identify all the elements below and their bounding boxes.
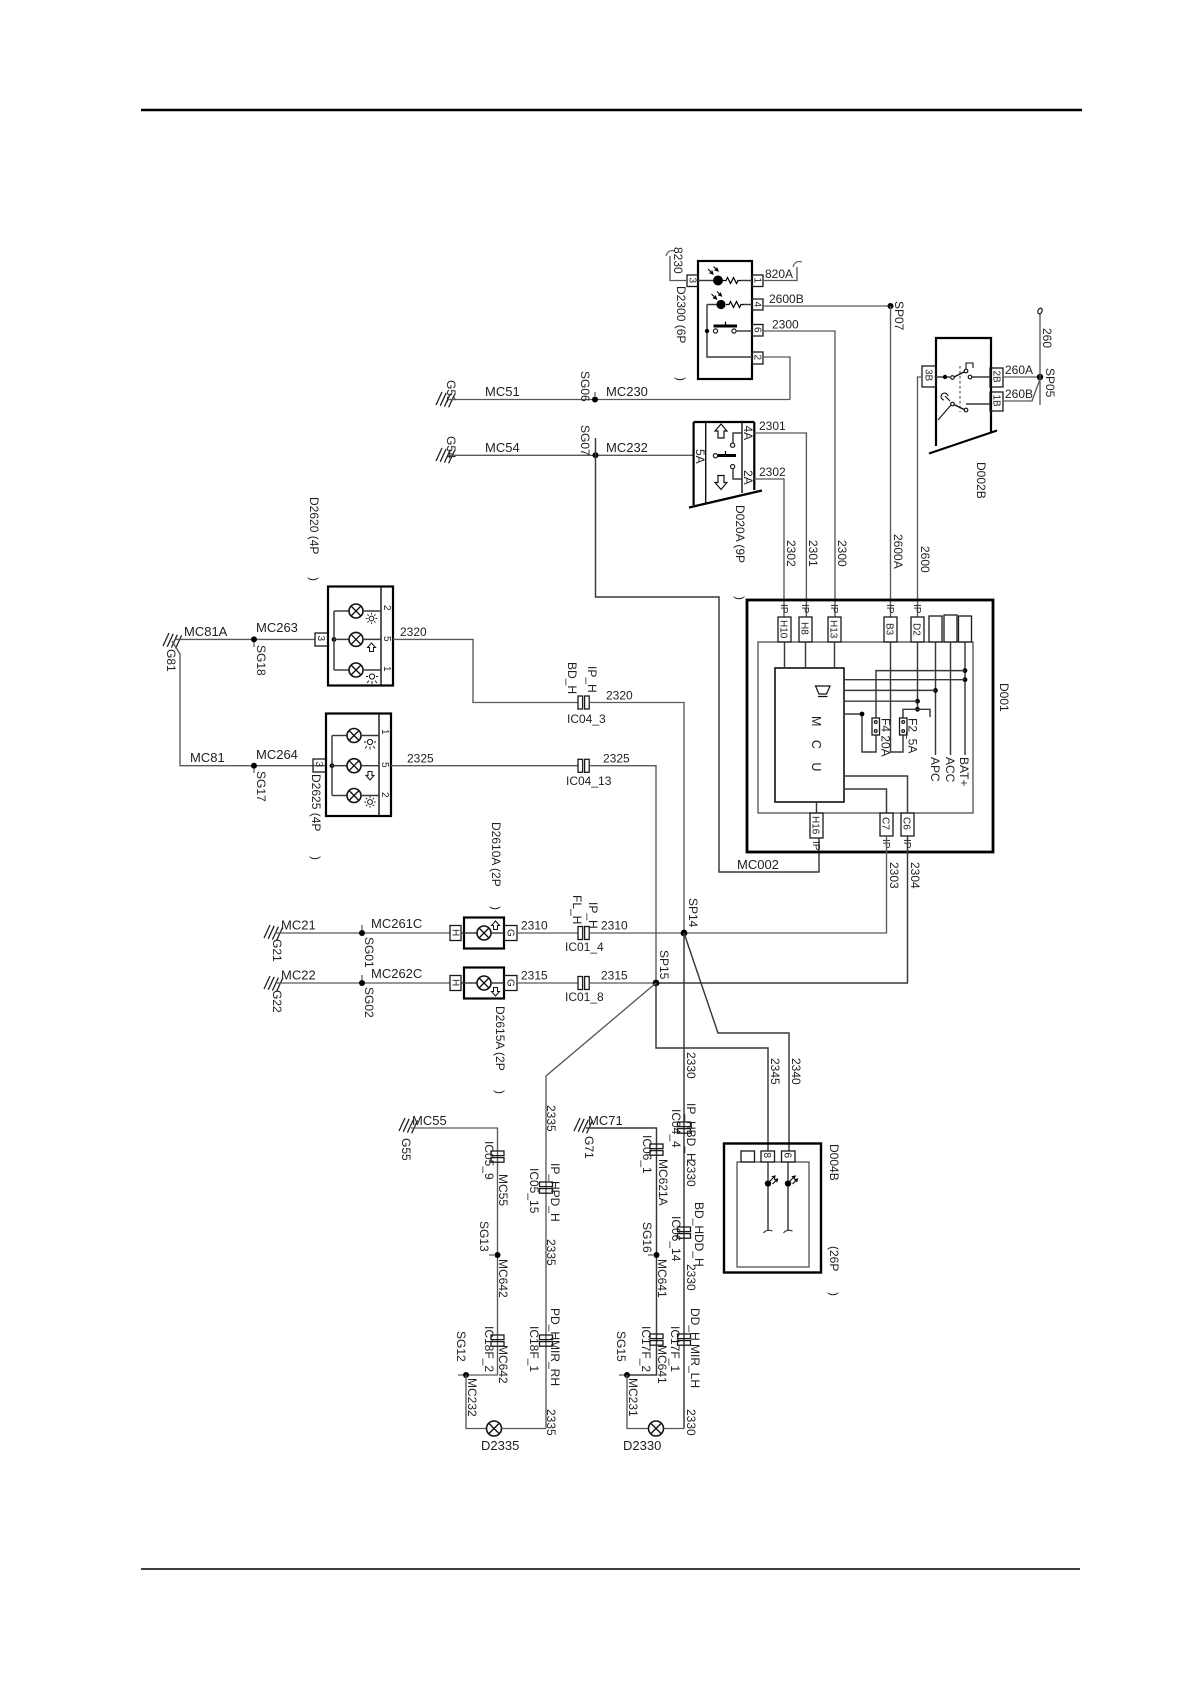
- svg-text:D2610A (2P: D2610A (2P: [489, 822, 503, 887]
- svg-text:MC55: MC55: [496, 1174, 510, 1206]
- svg-text:2325: 2325: [603, 752, 630, 766]
- wire MC81 row label: [190, 747, 298, 765]
- resistor row1 D2300: [723, 278, 752, 284]
- fuse F2: [900, 718, 920, 753]
- label D020A (9P: [733, 505, 747, 563]
- wire MC71: [586, 1113, 657, 1375]
- ground G22: [264, 976, 284, 1013]
- svg-text:D004B: D004B: [827, 1144, 841, 1181]
- svg-text:IP_HBD_H: IP_HBD_H: [684, 1103, 698, 1162]
- svg-text:D2300 (6P: D2300 (6P: [674, 286, 688, 343]
- speaker icon: [816, 686, 831, 697]
- wire H13 to MCU: [834, 642, 836, 668]
- wire 2330 vertical: [684, 933, 698, 1429]
- svg-text:2325: 2325: [407, 752, 434, 766]
- connector IC18F_1: [527, 1308, 562, 1386]
- svg-text:MC81A: MC81A: [184, 624, 228, 639]
- svg-text:SG06: SG06: [578, 371, 592, 402]
- svg-text:SG07: SG07: [578, 425, 592, 456]
- svg-text:G21: G21: [270, 939, 284, 962]
- svg-text:MC81: MC81: [190, 750, 225, 765]
- svg-text:2302: 2302: [784, 540, 798, 567]
- svg-text:MC232: MC232: [606, 440, 648, 455]
- pin 5 label D2620: [381, 636, 392, 642]
- lamp symbol row2 D2300: [707, 292, 726, 310]
- svg-text:H8: H8: [799, 622, 810, 635]
- wire 2310: [517, 919, 578, 934]
- svg-text:MC55: MC55: [412, 1113, 447, 1128]
- svg-text:FL_H: FL_H: [570, 895, 584, 924]
- svg-text:MC641: MC641: [655, 1345, 669, 1384]
- wire 2340 diagonal from SP14: [684, 933, 803, 1151]
- turn lamp unit D2610A: [450, 918, 518, 949]
- icon down arrow D2625: [366, 772, 374, 781]
- svg-text:SG17: SG17: [254, 771, 268, 802]
- ground G71: [574, 1118, 596, 1159]
- svg-text:2340: 2340: [789, 1058, 803, 1085]
- svg-text:260: 260: [1040, 328, 1054, 348]
- svg-text:D2330: D2330: [623, 1438, 661, 1453]
- wire MC51 / MC230 row: [448, 384, 790, 400]
- wire 2330 bottom link: [664, 1428, 685, 1430]
- node SG16: [640, 1222, 669, 1298]
- svg-text:C6: C6: [901, 817, 912, 830]
- svg-text:2330: 2330: [684, 1409, 698, 1436]
- connector IC01_8: [565, 977, 604, 1005]
- wire BAT+: [957, 642, 971, 786]
- svg-text:IC04_4: IC04_4: [669, 1109, 683, 1148]
- wire MCU to C6: [844, 776, 908, 813]
- mirror select switch D002B: [929, 338, 997, 454]
- svg-text:MC54: MC54: [485, 440, 520, 455]
- svg-text:5: 5: [379, 762, 390, 768]
- svg-text:MC261C: MC261C: [371, 916, 422, 931]
- label D004B: [827, 1144, 841, 1181]
- wire 2600 from 3B to D2: [918, 377, 933, 617]
- svg-text:H16: H16: [810, 816, 821, 835]
- control unit D001: [747, 600, 993, 852]
- svg-text:C7: C7: [880, 817, 891, 830]
- wire 2320 to SP14: [589, 689, 684, 934]
- lamp1 D2625: [347, 729, 379, 743]
- svg-text:2330: 2330: [684, 1264, 698, 1291]
- svg-text:2315: 2315: [521, 969, 548, 983]
- pin 2 label D2620: [381, 605, 392, 611]
- connector IC06_14: [669, 1202, 706, 1267]
- wire MC55: [411, 1113, 498, 1375]
- label (26P: [827, 1246, 841, 1271]
- wire MC002: [596, 438, 820, 872]
- lamp3 D2625: [347, 789, 379, 803]
- svg-text:H13: H13: [828, 620, 839, 639]
- lamp1 D2620: [349, 604, 381, 618]
- svg-text:IC05_15: IC05_15: [527, 1168, 541, 1214]
- inner board of D001: [758, 642, 973, 813]
- node SG06: [578, 371, 598, 403]
- svg-text:820A: 820A: [765, 267, 793, 281]
- label D001: [997, 683, 1011, 712]
- svg-text:MC71: MC71: [588, 1113, 623, 1128]
- svg-text:IC05_9: IC05_9: [482, 1141, 496, 1180]
- wire 2315 to SP15: [589, 969, 656, 984]
- pin B3: [884, 604, 898, 642]
- wire 2303: [684, 836, 901, 933]
- svg-text:MC621A: MC621A: [656, 1159, 670, 1206]
- svg-text:2: 2: [379, 792, 390, 798]
- svg-text:H10: H10: [778, 620, 789, 639]
- svg-text:IP_HPD_H: IP_HPD_H: [548, 1163, 562, 1222]
- svg-text:D2625 (4P: D2625 (4P: [309, 774, 323, 831]
- pin 6 of D004B: [782, 1151, 796, 1162]
- pin 4 of D2300: [752, 299, 764, 310]
- label M C U: [809, 716, 823, 776]
- icon tail lamp D2625: [364, 796, 375, 807]
- svg-text:D020A (9P: D020A (9P: [733, 505, 747, 563]
- wire 2600A vertical to B3: [891, 306, 906, 617]
- pin D2: [911, 604, 925, 642]
- fuse F2 top bracket: [903, 709, 930, 718]
- svg-text:PD_HMIR_RH: PD_HMIR_RH: [548, 1308, 562, 1386]
- label D2300 (6P: [674, 286, 688, 343]
- label D2615A (2P: [493, 1006, 507, 1094]
- pin 3 of D2625: [313, 759, 326, 772]
- wire MC231 to lamp: [627, 1375, 649, 1429]
- svg-text:IP: IP: [778, 604, 789, 614]
- turn lamp unit D2615A: [450, 968, 518, 999]
- svg-text:MC21: MC21: [281, 918, 316, 933]
- svg-text:D2: D2: [911, 623, 922, 636]
- wire 260 with open terminal: [1037, 307, 1054, 405]
- label D2620 (4P: [307, 497, 321, 581]
- wire MC230 riser from pin2: [763, 357, 790, 400]
- svg-text:2345: 2345: [768, 1058, 782, 1085]
- svg-text:SG12: SG12: [454, 1331, 468, 1362]
- svg-text:SP07: SP07: [892, 301, 906, 331]
- svg-text:MC264: MC264: [256, 747, 298, 762]
- wire MCU to C7: [844, 789, 887, 813]
- pin 3 of D2620: [315, 633, 328, 646]
- svg-text:260A: 260A: [1005, 363, 1033, 377]
- svg-text:D2620 (4P: D2620 (4P: [307, 497, 321, 554]
- svg-text:1: 1: [379, 729, 390, 735]
- svg-text:2: 2: [752, 355, 763, 361]
- svg-text:F4 20A: F4 20A: [879, 718, 893, 757]
- label 2330 bottom: [684, 1409, 698, 1436]
- svg-text:MC642: MC642: [496, 1345, 510, 1384]
- svg-text:2: 2: [381, 605, 392, 611]
- mcu row to D2: [844, 700, 918, 702]
- pin 1 label D2620: [381, 666, 392, 672]
- node SP05: [1037, 368, 1057, 398]
- svg-text:): ): [489, 906, 503, 910]
- svg-text:G22: G22: [270, 990, 284, 1013]
- svg-text:MC262C: MC262C: [371, 966, 422, 981]
- svg-text:2330: 2330: [684, 1160, 698, 1187]
- svg-text:6: 6: [782, 1153, 793, 1159]
- lamp2 D2625: [347, 759, 379, 773]
- svg-text:1B: 1B: [991, 395, 1002, 408]
- wire 2600B: [763, 292, 891, 306]
- svg-text:IP_H: IP_H: [585, 666, 599, 693]
- svg-text:2600B: 2600B: [769, 292, 804, 306]
- svg-text:MC263: MC263: [256, 620, 298, 635]
- node SG17: [251, 763, 268, 802]
- icon tail lamp: [366, 613, 377, 624]
- ground G55: [399, 1118, 418, 1161]
- wire MC81A row: [176, 620, 315, 639]
- label 2330 mid: [684, 1264, 698, 1291]
- svg-text:2335: 2335: [544, 1409, 558, 1436]
- wire G81 branch down: [172, 641, 326, 766]
- fuse F4 top link: [876, 671, 965, 718]
- LED right in D004B: [784, 1162, 798, 1233]
- connector IC05_15: [527, 1163, 562, 1222]
- connector IC06_1: [640, 1135, 670, 1206]
- wire MCU to H16: [816, 802, 818, 813]
- svg-text:2600: 2600: [918, 546, 932, 573]
- svg-text:5A: 5A: [693, 449, 707, 464]
- node SG07: [578, 425, 599, 458]
- svg-text:2320: 2320: [400, 625, 427, 639]
- svg-text:2320: 2320: [606, 689, 633, 703]
- svg-text:BD_H: BD_H: [565, 662, 579, 694]
- pin 6 of D2300: [752, 325, 764, 337]
- wire 2310 to SP14: [589, 919, 684, 934]
- wire ACC: [943, 642, 957, 783]
- switch unit D2300: [698, 261, 752, 379]
- svg-text:): ): [827, 1292, 841, 1296]
- svg-text:IC06_1: IC06_1: [640, 1135, 654, 1174]
- label ) of D2300: [674, 377, 688, 381]
- svg-text:IC17F_1: IC17F_1: [668, 1326, 682, 1372]
- svg-text:F2_5A: F2_5A: [906, 718, 920, 753]
- svg-text:2302: 2302: [759, 465, 786, 479]
- svg-text:IP: IP: [810, 841, 821, 851]
- svg-text:IC01_8: IC01_8: [565, 990, 604, 1004]
- wire 2345 from SP15: [656, 983, 782, 1151]
- svg-text:IP: IP: [884, 604, 895, 614]
- connector IC01_4: [565, 895, 604, 954]
- svg-text:2301: 2301: [806, 540, 820, 567]
- label D2610A (2P: [489, 822, 503, 910]
- wire MC232 to lamp: [466, 1375, 487, 1429]
- svg-text:260B: 260B: [1005, 387, 1033, 401]
- svg-text:SP15: SP15: [657, 950, 671, 980]
- svg-text:G: G: [505, 979, 516, 987]
- wire B3 branch: [891, 642, 904, 752]
- svg-text:G81: G81: [164, 649, 178, 672]
- pin 2B of D002B: [990, 368, 1003, 387]
- LED left in D004B: [764, 1162, 778, 1233]
- node SP07: [888, 301, 907, 331]
- unlabeled pin boxes top: [929, 615, 972, 642]
- resistor row2 D2300: [726, 302, 752, 308]
- node SG18: [251, 636, 268, 676]
- label D2625 (4P: [309, 774, 323, 860]
- svg-text:4A: 4A: [741, 426, 755, 441]
- icon position lamp D2625: [364, 739, 376, 749]
- mcu row to APC: [844, 689, 936, 691]
- pin C7: [880, 813, 894, 849]
- wire 2315: [517, 969, 578, 984]
- svg-text:ACC: ACC: [943, 757, 957, 783]
- label D002B: [974, 462, 988, 499]
- svg-text:): ): [674, 377, 688, 381]
- connector IC04_4: [669, 1103, 698, 1162]
- wire H8 to MCU: [805, 642, 807, 668]
- connector IC17F_2: [639, 1326, 669, 1384]
- svg-text:APC: APC: [928, 757, 942, 782]
- svg-text:4: 4: [752, 302, 763, 308]
- mirror fold switch D020A: [689, 422, 762, 508]
- wire 2325 to SP15: [589, 752, 656, 984]
- pin 2A label: [741, 470, 755, 485]
- svg-text:SG13: SG13: [477, 1221, 491, 1252]
- wire MC21 row: [275, 916, 450, 933]
- ground G51: [436, 380, 458, 407]
- pin 5A label: [693, 449, 707, 464]
- node SP14: [681, 898, 700, 936]
- wire 2320: [393, 625, 578, 703]
- wire 2325: [391, 752, 578, 766]
- bottom border rule: [141, 1568, 1080, 1570]
- svg-text:1: 1: [381, 666, 392, 672]
- svg-text:MC231: MC231: [626, 1378, 640, 1417]
- svg-text:MC232: MC232: [465, 1378, 479, 1417]
- fuse F4: [872, 718, 893, 757]
- svg-text:(26P: (26P: [827, 1246, 841, 1271]
- svg-text:IC18F_2: IC18F_2: [482, 1326, 496, 1372]
- node SG01: [359, 925, 376, 968]
- label 2335 bottom: [544, 1409, 558, 1436]
- node SP15: [653, 950, 671, 986]
- pin 1 label D2625: [379, 729, 390, 735]
- svg-text:G: G: [505, 929, 516, 937]
- wire 260A: [1003, 363, 1040, 377]
- svg-text:IC01_4: IC01_4: [565, 940, 604, 954]
- svg-text:2304: 2304: [908, 862, 922, 889]
- svg-text:SP05: SP05: [1043, 368, 1057, 398]
- svg-text:IC04_3: IC04_3: [567, 712, 606, 726]
- pin 3B of D002B: [922, 366, 936, 387]
- svg-text:3: 3: [315, 636, 326, 642]
- pin H8: [799, 604, 813, 642]
- blank pin D004B: [741, 1151, 755, 1162]
- ground G54: [436, 436, 458, 463]
- svg-text:BAT+: BAT+: [957, 757, 971, 786]
- svg-text:MC642: MC642: [496, 1259, 510, 1298]
- wire 2335 bottom link: [502, 1428, 547, 1430]
- icon position lamp: [366, 674, 378, 684]
- label ) of D004B: [827, 1292, 841, 1296]
- pin 5 label D2625: [379, 762, 390, 768]
- svg-text:2335: 2335: [544, 1239, 558, 1266]
- push switch D2300: [713, 322, 752, 334]
- svg-text:B3: B3: [884, 623, 895, 636]
- svg-text:G55: G55: [399, 1138, 413, 1161]
- svg-text:H: H: [450, 929, 461, 936]
- pin 2 of D2300: [752, 352, 764, 364]
- lamp2 D2620: [349, 632, 381, 646]
- icon turn arrow: [368, 643, 376, 652]
- wire 2302: [754, 465, 798, 617]
- connector IC18F_2: [482, 1326, 510, 1384]
- switch contact D020A: [713, 433, 742, 479]
- svg-text:IP: IP: [901, 839, 912, 849]
- svg-text:8230: 8230: [671, 247, 685, 274]
- wire 2304: [656, 836, 922, 983]
- mirror unit D004B: [724, 1144, 821, 1273]
- connector IC04_13: [566, 759, 612, 788]
- svg-text:IP: IP: [799, 604, 810, 614]
- down arrow icon D020A: [715, 476, 727, 490]
- top border rule: [141, 109, 1082, 112]
- svg-text:IP: IP: [911, 604, 922, 614]
- svg-text:3: 3: [313, 762, 324, 768]
- svg-text:3: 3: [687, 278, 698, 284]
- wire 260B: [1003, 379, 1040, 401]
- node SG12: [454, 1331, 479, 1417]
- mcu row to BAT+: [844, 679, 965, 681]
- pin H16: [810, 813, 824, 851]
- wire APC: [928, 642, 942, 782]
- wire 2300: [763, 318, 849, 618]
- svg-text:2330: 2330: [684, 1052, 698, 1079]
- internal bus D2300: [705, 305, 752, 358]
- svg-text:2A: 2A: [741, 470, 755, 485]
- svg-text:DD_H MIR_LH: DD_H MIR_LH: [688, 1308, 702, 1388]
- svg-text:D2615A (2P: D2615A (2P: [493, 1006, 507, 1071]
- pin C6: [901, 813, 915, 849]
- svg-text:2300: 2300: [772, 318, 799, 332]
- wire 2335 diagonal from SP15: [544, 983, 656, 1429]
- pin 1B of D002B: [990, 392, 1003, 411]
- node SG02: [359, 975, 376, 1018]
- node SG13: [477, 1221, 510, 1298]
- svg-text:SG16: SG16: [640, 1222, 654, 1253]
- svg-text:IC04_13: IC04_13: [566, 774, 612, 788]
- wire MC54 / MC232 row: [448, 440, 694, 455]
- svg-text:SG01: SG01: [362, 937, 376, 968]
- svg-text:): ): [493, 1090, 507, 1094]
- svg-text:2300: 2300: [835, 540, 849, 567]
- node SG15: [614, 1331, 640, 1417]
- svg-text:3B: 3B: [923, 369, 934, 382]
- svg-text:D001: D001: [997, 683, 1011, 712]
- ground G81: [163, 633, 182, 672]
- svg-text:G71: G71: [582, 1136, 596, 1159]
- svg-text:MC230: MC230: [606, 384, 648, 399]
- svg-text:5: 5: [381, 636, 392, 642]
- wire D2 branch: [915, 642, 920, 712]
- svg-text:D002B: D002B: [974, 462, 988, 499]
- pin 4A label: [741, 426, 755, 441]
- svg-text:2310: 2310: [521, 919, 548, 933]
- svg-text:2310: 2310: [601, 919, 628, 933]
- svg-text:MC641: MC641: [655, 1259, 669, 1298]
- lamp symbol row1 D2300: [698, 267, 723, 286]
- svg-text:2335: 2335: [544, 1105, 558, 1132]
- svg-text:1: 1: [752, 278, 763, 284]
- mcu row to fuse F4: [844, 712, 876, 752]
- lamp D2335: [481, 1421, 519, 1453]
- svg-text:): ): [733, 596, 747, 600]
- svg-text:IP: IP: [880, 839, 891, 849]
- wire H10 to MCU: [784, 642, 786, 668]
- svg-text:2315: 2315: [601, 969, 628, 983]
- pin H13: [828, 604, 842, 642]
- svg-text:SG15: SG15: [614, 1331, 628, 1362]
